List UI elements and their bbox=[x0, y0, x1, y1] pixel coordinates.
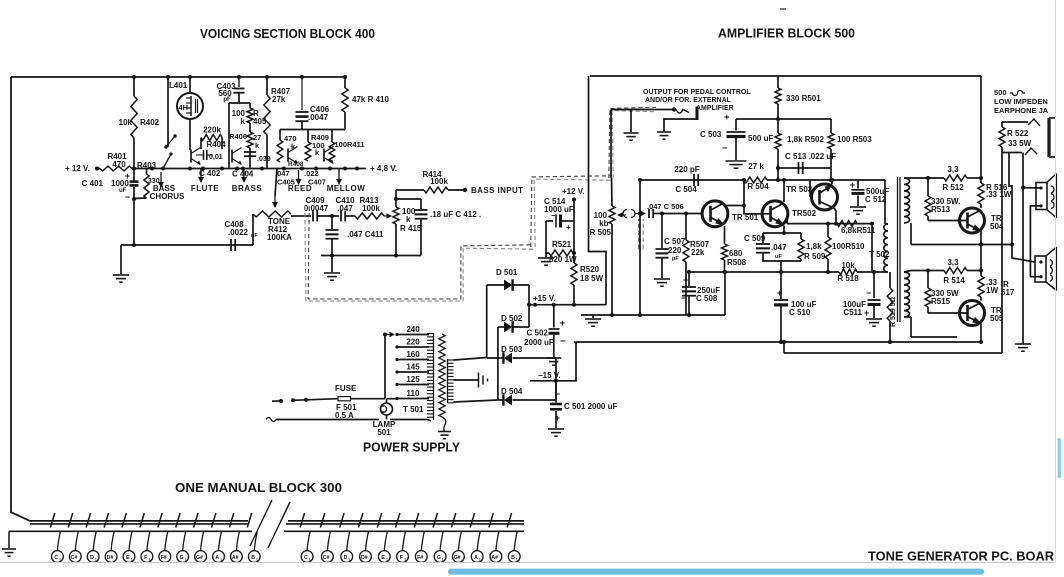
svg-text:.047: .047 bbox=[337, 204, 353, 213]
svg-text:0,01: 0,01 bbox=[209, 154, 223, 161]
wire input to TR501 bbox=[654, 213, 703, 215]
switch bass chorus bbox=[163, 154, 171, 169]
wire +15V rail bbox=[529, 304, 606, 306]
svg-text:LOW IMPEDEN: LOW IMPEDEN bbox=[994, 97, 1048, 106]
svg-text:−: − bbox=[560, 336, 566, 347]
svg-text:470: 470 bbox=[112, 160, 126, 169]
terminal C#1 bbox=[75, 531, 78, 550]
svg-text:47k R 410: 47k R 410 bbox=[352, 95, 389, 104]
svg-text:27 k: 27 k bbox=[748, 162, 764, 171]
ground pedal 1 bbox=[630, 110, 632, 133]
svg-text:330 R501: 330 R501 bbox=[786, 94, 821, 103]
svg-text:EARPHONE JA: EARPHONE JA bbox=[994, 106, 1049, 115]
svg-text:100k: 100k bbox=[362, 204, 380, 213]
wire amp mid rail 272 bbox=[689, 271, 839, 273]
svg-text:CHORUS: CHORUS bbox=[150, 192, 185, 201]
capacitor C504 bbox=[693, 174, 695, 186]
horizontal scrollbar bbox=[448, 569, 984, 575]
capacitor C512 bbox=[857, 180, 859, 189]
terminal B2 bbox=[514, 531, 517, 550]
svg-text:B: B bbox=[511, 555, 515, 561]
svg-text:33 5W: 33 5W bbox=[1008, 139, 1032, 148]
svg-text:1: 1 bbox=[309, 558, 311, 562]
terminal F2 bbox=[403, 531, 406, 550]
transistor keyer 3 bbox=[287, 149, 289, 162]
svg-text:C 401: C 401 bbox=[82, 179, 104, 188]
wire TR503 emitter up bbox=[831, 180, 833, 186]
capacitor C502 bbox=[553, 305, 555, 328]
wire -15V rail bbox=[530, 380, 577, 382]
svg-text:+: + bbox=[724, 112, 730, 123]
svg-text:+: + bbox=[683, 275, 688, 285]
wire amp top rail bbox=[590, 75, 981, 77]
transformer T502 secondary top bbox=[904, 178, 909, 223]
resistor R507 bbox=[685, 214, 687, 241]
resistor R410 bbox=[344, 77, 346, 88]
svg-text:R521: R521 bbox=[552, 240, 572, 249]
svg-text:1: 1 bbox=[149, 558, 151, 562]
svg-text:−: − bbox=[681, 293, 686, 303]
svg-text:L401: L401 bbox=[169, 81, 188, 90]
wire mains lower lead bbox=[266, 418, 276, 422]
svg-text:1W: 1W bbox=[986, 286, 998, 295]
wire secondary top to D503 bbox=[454, 358, 487, 361]
svg-text:680: 680 bbox=[729, 249, 743, 258]
svg-text:D 501: D 501 bbox=[496, 268, 518, 277]
svg-text:1,8k R502: 1,8k R502 bbox=[787, 135, 824, 144]
svg-text:BASS INPUT: BASS INPUT bbox=[471, 186, 523, 195]
resistor R508 bbox=[722, 244, 728, 260]
terminal A1 bbox=[219, 531, 222, 550]
resistor R407 bbox=[266, 77, 268, 95]
wire supply drop right bbox=[980, 76, 982, 178]
node top rail junction bbox=[300, 75, 304, 79]
svg-text:R508: R508 bbox=[727, 258, 747, 267]
svg-text:.047 C411: .047 C411 bbox=[347, 230, 384, 239]
svg-text:+: + bbox=[125, 171, 130, 181]
wire TR502 emitter bbox=[783, 226, 785, 234]
capacitor C406 bbox=[301, 77, 303, 110]
wire amp left edge bbox=[589, 76, 607, 305]
connector shielded input bbox=[623, 210, 627, 218]
wire R415 loop bottom bbox=[321, 255, 421, 257]
svg-text:.18 uF C 412 .: .18 uF C 412 . bbox=[430, 210, 481, 219]
svg-text:AMPLIFIER: AMPLIFIER bbox=[696, 105, 734, 112]
ground R521 bbox=[545, 253, 547, 257]
terminal A#2 bbox=[496, 531, 499, 550]
node top rail junction bbox=[132, 75, 136, 79]
svg-text:100 R503: 100 R503 bbox=[837, 135, 872, 144]
wire pedal node bbox=[736, 118, 831, 120]
resistor R501 bbox=[777, 76, 779, 88]
svg-text:kb: kb bbox=[599, 219, 608, 228]
svg-text:F#: F# bbox=[417, 555, 423, 561]
resistor R509 bbox=[800, 233, 802, 239]
wire 4.8V rail bbox=[132, 168, 366, 170]
capacitor C509 loop bbox=[762, 233, 764, 243]
svg-text:B: B bbox=[251, 555, 255, 561]
svg-text:100KA: 100KA bbox=[267, 233, 292, 242]
svg-text:+: + bbox=[566, 223, 571, 232]
jack sleeve bbox=[1047, 118, 1050, 157]
svg-text:D#: D# bbox=[361, 555, 368, 561]
wire R512 to node bbox=[967, 177, 981, 179]
shield cable input stub bbox=[638, 219, 640, 249]
arrow bass chorus bbox=[160, 172, 162, 187]
resistor R405 bbox=[249, 103, 251, 108]
capacitor C511 bbox=[873, 272, 875, 298]
svg-text:C511: C511 bbox=[843, 308, 862, 317]
svg-text:FLUTE: FLUTE bbox=[191, 184, 219, 193]
svg-text:1: 1 bbox=[95, 558, 97, 562]
svg-text:500: 500 bbox=[994, 88, 1007, 97]
svg-text:pF: pF bbox=[672, 256, 679, 262]
svg-text:145: 145 bbox=[406, 363, 420, 372]
wire R522 to rail bbox=[1001, 153, 1003, 354]
svg-text:1: 1 bbox=[442, 558, 444, 562]
svg-text:1: 1 bbox=[404, 558, 406, 562]
resistor R409 bbox=[305, 142, 311, 161]
wire lower winding return bbox=[904, 316, 911, 318]
wire C509 block down bbox=[780, 261, 782, 272]
svg-text:R515: R515 bbox=[931, 297, 951, 306]
svg-text:R 505: R 505 bbox=[590, 228, 612, 237]
svg-text:C 402: C 402 bbox=[199, 169, 221, 178]
svg-text:6,8kR511: 6,8kR511 bbox=[841, 226, 876, 235]
svg-text:R 504: R 504 bbox=[747, 182, 769, 191]
wire top rail block 400 bbox=[11, 76, 347, 78]
svg-text:18 5W: 18 5W bbox=[580, 274, 604, 283]
resistor R502 bbox=[775, 133, 781, 149]
svg-text:R520: R520 bbox=[580, 265, 600, 274]
svg-text:160: 160 bbox=[406, 350, 420, 359]
svg-text:R411: R411 bbox=[347, 140, 365, 149]
arrow brass bbox=[243, 168, 245, 182]
svg-text:1: 1 bbox=[348, 558, 350, 562]
node top rail junction bbox=[188, 75, 192, 79]
wire secondary top lead bbox=[904, 177, 944, 179]
svg-text:G: G bbox=[437, 555, 441, 561]
svg-text:C 513 .022 uF: C 513 .022 uF bbox=[785, 152, 836, 161]
resistor R414 bbox=[395, 190, 397, 199]
svg-text:POWER SUPPLY: POWER SUPPLY bbox=[363, 441, 461, 455]
svg-text:E: E bbox=[381, 555, 385, 561]
svg-text:1: 1 bbox=[479, 558, 481, 562]
wire pot left leg bbox=[252, 214, 254, 245]
speaker 1 bbox=[1021, 186, 1025, 190]
svg-text:uF: uF bbox=[775, 254, 782, 260]
transistor TR502 bbox=[762, 201, 788, 227]
terminal F#1 bbox=[165, 531, 168, 550]
wire R516 to TR504 collector bbox=[980, 204, 982, 208]
svg-text:MELLOW: MELLOW bbox=[327, 184, 366, 193]
wire bass input bbox=[448, 189, 465, 191]
connector pedal output bbox=[611, 109, 674, 111]
resistor R518 bbox=[839, 269, 857, 275]
svg-text:R 514: R 514 bbox=[943, 276, 965, 285]
svg-text:+ 12 V.: + 12 V. bbox=[65, 164, 90, 173]
svg-text:R408: R408 bbox=[288, 161, 304, 168]
stray mark bbox=[780, 8, 786, 10]
transistor TR501 bbox=[702, 201, 728, 227]
svg-text:.047: .047 bbox=[771, 243, 787, 252]
svg-text:−: − bbox=[125, 192, 130, 202]
vertical scrollbar bbox=[1058, 438, 1062, 478]
terminal A#1 bbox=[236, 531, 239, 550]
svg-text:A#: A# bbox=[232, 555, 239, 561]
svg-text:+: + bbox=[777, 288, 782, 298]
wire +12 node bbox=[572, 198, 576, 202]
lamp LAMP501 bbox=[381, 403, 393, 415]
terminal C#2 bbox=[327, 531, 330, 550]
capacitor C513 bbox=[778, 167, 831, 169]
svg-text:100k: 100k bbox=[430, 177, 448, 186]
wire amp ground rail 315 bbox=[581, 314, 725, 316]
svg-text:0.0047: 0.0047 bbox=[304, 204, 329, 213]
wire keyer rail bbox=[280, 129, 345, 131]
transistor keyer 1 bbox=[190, 150, 192, 163]
resistor R510 bbox=[827, 224, 829, 237]
svg-text:R402: R402 bbox=[140, 118, 160, 127]
svg-text:C#: C# bbox=[71, 555, 78, 561]
svg-text:1,8k: 1,8k bbox=[806, 242, 822, 251]
wire diode column B bbox=[497, 327, 499, 400]
terminal F#2 bbox=[421, 531, 424, 550]
arrow flute bbox=[200, 168, 202, 182]
resistor R516 bbox=[978, 183, 984, 204]
svg-text:240: 240 bbox=[406, 325, 420, 334]
svg-text:+: + bbox=[850, 180, 855, 190]
svg-text:3,3: 3,3 bbox=[947, 165, 959, 174]
wire jack return down bbox=[1022, 153, 1024, 345]
ground left border bbox=[8, 531, 10, 548]
ground centre tap sideways bbox=[454, 379, 479, 381]
svg-text:1000 uF: 1000 uF bbox=[544, 205, 574, 214]
wire R405 left branch bbox=[228, 103, 230, 169]
wire out down bbox=[980, 245, 982, 271]
svg-text:220k: 220k bbox=[203, 126, 221, 135]
terminal G1 bbox=[183, 531, 186, 550]
svg-text:k: k bbox=[241, 117, 246, 126]
ground amp rail bbox=[592, 315, 594, 318]
wire bbox=[318, 215, 339, 217]
svg-text:27k: 27k bbox=[272, 95, 286, 104]
wire C408 run bbox=[121, 244, 253, 246]
wire L401 leads bbox=[189, 77, 191, 93]
terminal E2 bbox=[384, 531, 387, 550]
svg-text:110: 110 bbox=[407, 389, 420, 398]
svg-text:R 509: R 509 bbox=[804, 252, 826, 261]
svg-text:BRASS: BRASS bbox=[232, 184, 263, 193]
jack contact upper bbox=[1028, 119, 1040, 126]
wire secondary bottom to D504 bbox=[454, 400, 498, 402]
svg-text:TR502: TR502 bbox=[792, 209, 817, 218]
svg-text:uF: uF bbox=[251, 233, 258, 239]
wire R511 node bbox=[787, 223, 872, 225]
capacitor C507 bbox=[661, 214, 663, 249]
arrow wiper R415 bbox=[384, 215, 388, 217]
wire -15 riser bbox=[575, 342, 577, 381]
svg-text:1: 1 bbox=[59, 558, 61, 562]
svg-text:T 501: T 501 bbox=[403, 405, 424, 414]
resistor R406 bbox=[247, 132, 253, 148]
svg-text:1: 1 bbox=[184, 558, 186, 562]
capacitor C506 bbox=[648, 209, 650, 218]
svg-text:−15 V.: −15 V. bbox=[538, 371, 561, 380]
bus line 3 bbox=[9, 530, 252, 532]
svg-text:G#: G# bbox=[196, 555, 203, 561]
svg-text:820 1W: 820 1W bbox=[549, 255, 577, 264]
page right edge bbox=[1055, 0, 1057, 563]
wire TR502 base bbox=[744, 206, 770, 214]
transformer T501 secondary comb bbox=[447, 359, 449, 403]
svg-text:220: 220 bbox=[406, 338, 420, 347]
svg-text:OUTPUT FOR PEDAL CONTROL: OUTPUT FOR PEDAL CONTROL bbox=[643, 89, 751, 96]
wire TR501 collector bbox=[723, 180, 744, 206]
svg-text:.0022: .0022 bbox=[228, 228, 249, 237]
svg-text:R 512: R 512 bbox=[942, 183, 964, 192]
terminal G#1 bbox=[201, 531, 204, 550]
svg-text:R 519 5Ω: R 519 5Ω bbox=[890, 296, 897, 327]
wire long rail 353 bbox=[784, 352, 1002, 354]
potentiometer R412 tone bbox=[274, 196, 276, 207]
wire C514/R521 left leg bbox=[545, 221, 547, 253]
svg-text:C 509: C 509 bbox=[744, 234, 766, 243]
svg-text:ONE MANUAL BLOCK 300: ONE MANUAL BLOCK 300 bbox=[175, 481, 342, 495]
svg-text:VOICING SECTION BLOCK 400: VOICING SECTION BLOCK 400 bbox=[200, 27, 375, 41]
svg-text:C407: C407 bbox=[308, 178, 326, 187]
terminal E1 bbox=[129, 531, 132, 550]
capacitor C408 bbox=[230, 239, 232, 251]
resistor R402 bbox=[133, 77, 135, 96]
capacitor C409 bbox=[312, 211, 314, 222]
resistor R512 bbox=[944, 175, 967, 181]
capacitor C501 bbox=[555, 381, 557, 403]
svg-text:AMPLIFIER BLOCK 500: AMPLIFIER BLOCK 500 bbox=[718, 27, 855, 41]
arrow R505 wiper bbox=[621, 214, 626, 216]
resistor R401 bbox=[97, 168, 100, 170]
bus break bbox=[250, 500, 272, 546]
svg-text:C 510: C 510 bbox=[789, 308, 811, 317]
transformer T502 core bbox=[897, 177, 899, 322]
capacitor C411 bbox=[331, 216, 333, 229]
terminal G#2 bbox=[458, 531, 461, 550]
terminal D#2 bbox=[366, 531, 369, 550]
wire fuse leads bbox=[272, 400, 281, 402]
terminal F1 bbox=[147, 531, 150, 550]
wire tone feed bbox=[275, 169, 277, 197]
potentiometer R505 input bbox=[609, 206, 615, 224]
svg-text:TR 503: TR 503 bbox=[786, 185, 813, 194]
svg-text:G: G bbox=[179, 555, 183, 561]
wire C508 right leg bbox=[724, 272, 726, 315]
wire TR505 base bbox=[928, 312, 967, 314]
svg-text:G#: G# bbox=[454, 555, 461, 561]
resistor R411 bbox=[329, 142, 335, 161]
wire TR502 collector bbox=[783, 180, 785, 202]
wire R511 node column bbox=[871, 224, 873, 272]
wire R517 to TR505 bbox=[980, 297, 982, 301]
capacitor C510 bbox=[780, 272, 782, 299]
wire TR504 emitter to out bbox=[980, 231, 982, 245]
transformer T501 primary comb bbox=[433, 333, 435, 420]
wire R504 to TR503 bbox=[767, 179, 885, 181]
svg-text:C 501 2000 uF: C 501 2000 uF bbox=[564, 402, 617, 411]
svg-text:+12 V.: +12 V. bbox=[562, 187, 585, 196]
svg-text:pF: pF bbox=[223, 97, 231, 103]
capacitor C412 bbox=[420, 199, 422, 209]
wire R415 loop top bbox=[396, 198, 421, 200]
svg-text:D: D bbox=[344, 555, 348, 561]
svg-text:+15 V.: +15 V. bbox=[533, 294, 556, 303]
svg-text:C: C bbox=[54, 555, 58, 561]
svg-text:+: + bbox=[560, 318, 566, 329]
potentiometer R415 bbox=[395, 199, 397, 207]
transistor keyer 2 bbox=[231, 150, 233, 163]
ground C411 bbox=[330, 254, 334, 258]
resistor R522 block bbox=[1001, 122, 1003, 127]
svg-text:.039: .039 bbox=[257, 156, 271, 163]
transistor TR505 bbox=[960, 301, 985, 326]
shield cable pedal output bbox=[609, 107, 656, 178]
capacitor C410 bbox=[340, 211, 342, 222]
svg-text:C 512: C 512 bbox=[865, 195, 887, 204]
capacitor C508 loop bbox=[688, 272, 690, 286]
svg-text:500 uF: 500 uF bbox=[748, 134, 773, 143]
resistor R504 bbox=[744, 177, 767, 183]
svg-text:F: F bbox=[144, 555, 147, 561]
transformer T502 primary bbox=[884, 224, 888, 272]
svg-text:C 503: C 503 bbox=[700, 130, 722, 139]
svg-text:1: 1 bbox=[256, 558, 258, 562]
jack contact lower bbox=[1025, 148, 1037, 155]
wire output node bbox=[911, 244, 1012, 246]
node top rail junction bbox=[166, 75, 170, 79]
wire speaker1 return bbox=[1030, 206, 1041, 277]
wire TR504 base bbox=[928, 220, 967, 222]
svg-text:+ 4,8 V.: + 4,8 V. bbox=[370, 164, 397, 173]
svg-text:D#: D# bbox=[107, 555, 114, 561]
wire signal row bbox=[291, 215, 311, 217]
transistor TR504 bbox=[960, 208, 985, 233]
wire secondary bottom lead bbox=[904, 271, 911, 273]
transistor TR503 bbox=[812, 184, 838, 210]
arrow reed bbox=[298, 170, 300, 184]
speaker 2 bbox=[1035, 256, 1046, 282]
svg-text:A#: A# bbox=[491, 555, 498, 561]
wire left border bbox=[10, 77, 12, 513]
svg-text:1: 1 bbox=[220, 558, 222, 562]
terminal B1 bbox=[254, 531, 257, 550]
terminal G2 bbox=[440, 531, 443, 550]
svg-text:220 pF: 220 pF bbox=[674, 165, 699, 174]
ground voicing bbox=[113, 274, 129, 276]
wire diode column A bbox=[486, 285, 488, 358]
ground pedal 2 bbox=[664, 119, 696, 131]
svg-text:C: C bbox=[304, 555, 308, 561]
svg-text:F#: F# bbox=[161, 555, 167, 561]
bus line 2 bbox=[30, 523, 248, 525]
svg-text:C#: C# bbox=[323, 555, 330, 561]
terminal D#1 bbox=[111, 531, 114, 550]
svg-text:R513: R513 bbox=[931, 205, 951, 214]
svg-text:100R510: 100R510 bbox=[832, 242, 865, 251]
wire shield drain bbox=[639, 180, 641, 315]
resistor R514 bbox=[944, 268, 967, 274]
terminal D2 bbox=[347, 531, 350, 550]
wire pedal shield drain bbox=[610, 110, 612, 179]
shield cable R505 run bbox=[531, 176, 612, 247]
